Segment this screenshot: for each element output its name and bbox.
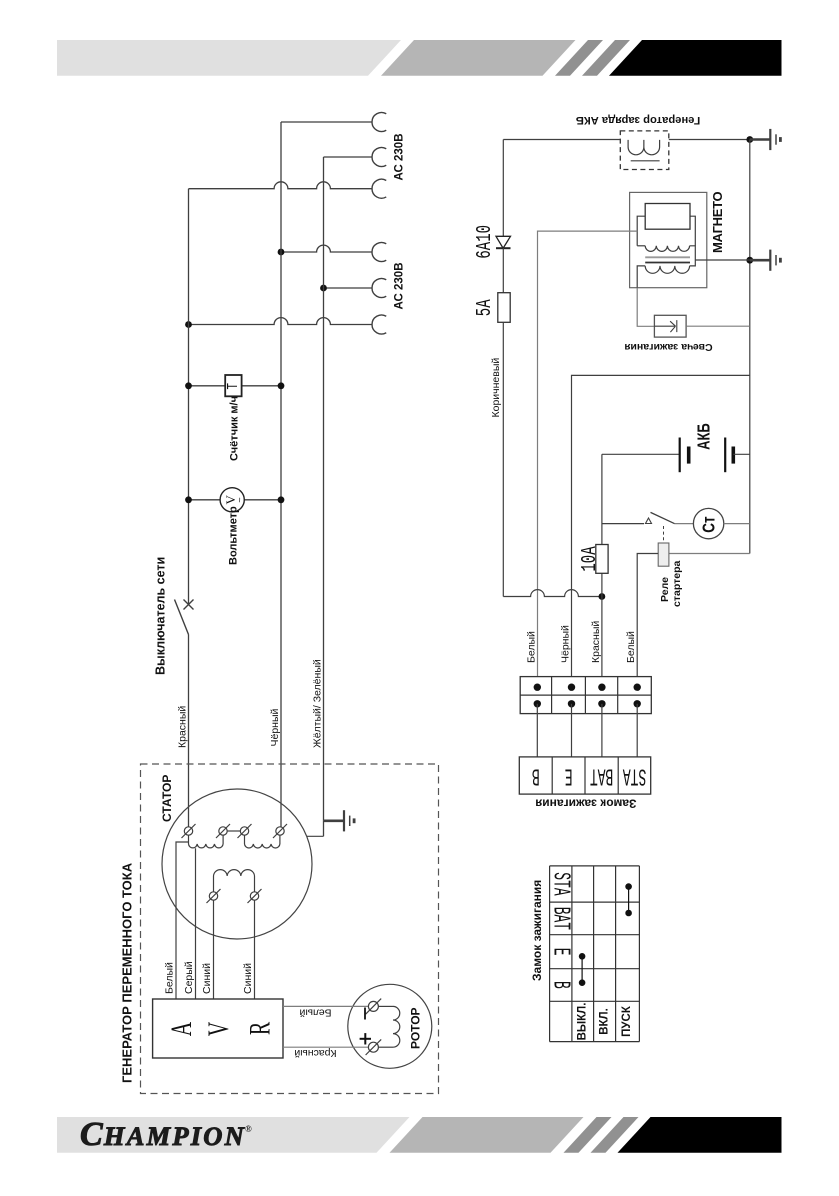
label AC 230V (upper) (394, 133, 406, 180)
state label VYKL (577, 1003, 589, 1041)
svg-text:Реле: Реле (659, 577, 671, 602)
state label VKL (599, 1008, 611, 1035)
svg-text:Т: Т (225, 383, 242, 390)
svg-text:ГЕНЕРАТОР ПЕРЕМЕННОГО ТОКА: ГЕНЕРАТОР ПЕРЕМЕННОГО ТОКА (120, 862, 135, 1083)
svg-text:Коричневый: Коричневый (490, 358, 502, 418)
wire magneto primary to white vertical (538, 231, 638, 687)
svg-text:АС 230В: АС 230В (394, 133, 406, 180)
fuse 5A (498, 293, 510, 323)
AC socket 4 (372, 243, 386, 262)
stator main winding terminal 1 (182, 824, 196, 838)
table header STA (547, 872, 574, 896)
wire: red wire to stator (188, 635, 190, 827)
svg-text:Синий: Синий (201, 963, 213, 994)
svg-text:Е: Е (547, 948, 574, 956)
svg-text:ВАТ: ВАТ (547, 907, 574, 930)
label brown wire (490, 358, 502, 418)
label blue wire 1 (201, 963, 213, 994)
label ignition lock (upside down) (535, 797, 636, 811)
svg-text:Выключатель сети: Выключатель сети (154, 557, 168, 675)
starter switch (602, 512, 675, 523)
svg-text:10А: 10А (579, 546, 603, 571)
wire magneto to ground bus (695, 259, 750, 261)
label magneto (710, 192, 725, 253)
wire labels above terminal block (525, 631, 537, 663)
svg-text:Чёрный: Чёрный (560, 625, 572, 663)
stator circle (162, 789, 312, 939)
label rotor (409, 1007, 423, 1049)
ground 1 (top right) (750, 129, 781, 150)
wire spark plug to bus (686, 325, 750, 327)
wire gray tap (195, 848, 197, 999)
svg-text:R: R (242, 1022, 276, 1035)
dashed link to relay (663, 526, 665, 543)
label ignition lock (table) (530, 880, 544, 981)
label rotor red wire (upside down) (294, 1047, 336, 1059)
ground 2 (magneto) (750, 250, 781, 271)
ignition lock state table (550, 866, 640, 1042)
AC socket 2 (372, 148, 386, 167)
voltmeter line (185, 496, 284, 503)
svg-text:5А: 5А (473, 299, 497, 316)
svg-text:STA: STA (547, 872, 574, 896)
wire charge generator left (503, 139, 620, 141)
svg-text:Вольтметр: Вольтметр (228, 506, 240, 565)
label battery charge generator (upside down) (576, 114, 700, 126)
mains switch (175, 600, 194, 635)
svg-text:Серый: Серый (183, 961, 195, 994)
table contact dots PUSK (625, 883, 632, 916)
svg-text:Белый: Белый (299, 1006, 331, 1018)
label 6A10 (473, 225, 497, 259)
stator main winding terminal 4 (273, 824, 287, 838)
svg-text:Счётчик м/ч: Счётчик м/ч (228, 396, 240, 461)
label gray wire (183, 961, 195, 994)
label blue wire 2 (242, 963, 254, 994)
svg-text:Свеча зажигания: Свеча зажигания (624, 341, 712, 353)
svg-text:стартера: стартера (671, 561, 683, 607)
red wire vertical with fuse 10A (596, 454, 608, 687)
black wire vertical and to bus (572, 375, 750, 687)
wire: socket 5 line (320, 285, 372, 292)
rotor coil (378, 1006, 399, 1047)
svg-text:Синий: Синий (242, 963, 254, 994)
ground at stator (324, 810, 355, 831)
svg-text:Чёрный: Чёрный (269, 708, 281, 746)
wire blue 2 (254, 900, 256, 999)
svg-text:6А10: 6А10 (473, 225, 497, 259)
wire blue 1 (213, 900, 215, 999)
svg-text:~: ~ (235, 497, 245, 502)
Champion logo (80, 1116, 252, 1153)
wire: left vertical (red wire) upper part (188, 189, 190, 604)
table header E (547, 948, 574, 956)
svg-text:Красный: Красный (176, 706, 188, 748)
svg-text:Ст: Ст (700, 516, 719, 533)
svg-text:ВЫКЛ.: ВЫКЛ. (577, 1003, 589, 1041)
diode 6A10 (496, 140, 511, 293)
right ground bus (746, 140, 753, 554)
table header B (547, 981, 574, 989)
svg-text:Белый: Белый (625, 631, 637, 663)
rotor wire white (283, 1005, 368, 1007)
voltmeter circle (220, 488, 244, 512)
label red wire (176, 706, 188, 748)
AVR letter A (164, 1021, 198, 1036)
generator dashed box (141, 764, 439, 1094)
label starter relay (659, 577, 671, 602)
wire: middle vertical (black wire from stator) (280, 122, 282, 827)
magneto core armature (645, 204, 690, 230)
wire white tap from coil A (176, 842, 189, 999)
state label PUSK (621, 1005, 633, 1037)
svg-text:V: V (201, 1021, 235, 1036)
voltmeter V~ symbol (223, 494, 238, 504)
spark plug gap symbol (654, 320, 676, 332)
starter motor circle (675, 508, 750, 538)
hour counter symbol T (225, 383, 242, 390)
wire magneto secondary down to spark plug (637, 288, 654, 327)
stator sub winding terminal 6 (248, 889, 262, 903)
wire: socket 6 line with hops (185, 318, 372, 328)
link terminal2-terminal3 (227, 830, 240, 832)
AVR letter R (242, 1022, 276, 1035)
hour counter box (225, 375, 241, 396)
contact label STA (623, 762, 647, 789)
AC socket 3 (372, 179, 386, 198)
svg-text:АС 230В: АС 230В (394, 262, 406, 309)
hour counter line (185, 382, 284, 389)
rotor terminal bottom (366, 1039, 382, 1055)
rotor circle (348, 984, 432, 1068)
footer stripe bar (57, 1117, 782, 1153)
label black wire (269, 708, 281, 746)
AC socket 6 (372, 315, 386, 334)
svg-text:Генератор заряда АКБ: Генератор заряда АКБ (576, 114, 700, 126)
charge generator coil (628, 140, 660, 161)
stator sub winding terminal 5 (207, 889, 221, 903)
svg-text:ПУСК: ПУСК (621, 1005, 633, 1037)
rotor minus mark (364, 1008, 366, 1020)
terminal block (520, 677, 651, 714)
svg-text:CHAMPION: CHAMPION (80, 1116, 246, 1153)
stator main winding coil B (245, 835, 280, 848)
magneto primary coil (637, 246, 695, 260)
rotor plus mark (360, 1033, 371, 1044)
label AC 230V (lower) (394, 262, 406, 309)
svg-text:STA: STA (623, 762, 647, 789)
table header BAT (547, 907, 574, 930)
label AC generator (120, 862, 135, 1083)
svg-text:В: В (547, 981, 574, 989)
contact label BAT (590, 762, 613, 789)
AC socket 1 (372, 112, 386, 131)
svg-text:Замок зажигания: Замок зажигания (535, 797, 636, 811)
AVR box (153, 999, 283, 1058)
label 5A (473, 299, 497, 316)
magneto primary outline (637, 216, 695, 246)
svg-text:В: В (532, 762, 540, 789)
wire: socket 4 line with hop (278, 245, 372, 255)
battery charge generator dashed box (620, 131, 669, 170)
svg-text:Жёлтый/ Зелёный: Жёлтый/ Зелёный (311, 659, 323, 748)
label spark plug (upside down) (624, 341, 712, 353)
contact label E (565, 762, 573, 789)
svg-text:A: A (164, 1021, 198, 1036)
wire: right vertical (yellow-green wire) (323, 157, 325, 821)
contact label B (532, 762, 540, 789)
stator main winding terminal 2 (216, 824, 230, 838)
wire: socket 1 feed (top corner of middle vertical) (281, 121, 372, 123)
rotor wire red (283, 1046, 368, 1048)
wire: socket 3 line with hops (189, 182, 373, 189)
svg-text:ВАТ: ВАТ (590, 762, 613, 789)
AVR letter V (201, 1021, 235, 1036)
svg-text:СТАТОР: СТАТОР (160, 775, 174, 822)
svg-text:Замок зажигания: Замок зажигания (530, 880, 544, 981)
brown wire down and across (503, 322, 605, 600)
svg-text:Белый: Белый (164, 962, 176, 994)
label St (starter) (700, 516, 719, 533)
header stripe bar (57, 40, 782, 76)
svg-text:ВКЛ.: ВКЛ. (599, 1008, 611, 1035)
wires terminal block to ignition lock contacts (537, 704, 637, 757)
svg-text:Красный: Красный (294, 1047, 336, 1059)
label AKB (695, 423, 714, 450)
stator frame to ground link (307, 821, 324, 837)
AC socket 5 (372, 279, 386, 298)
magneto box (630, 192, 707, 287)
magneto secondary coil (637, 260, 695, 288)
magneto core lines (645, 257, 690, 262)
svg-text:Белый: Белый (525, 631, 537, 663)
wire: socket 2 feed (324, 156, 373, 158)
label stator (160, 775, 174, 822)
table contact dots VYKL (579, 953, 586, 986)
stator sub winding coil (214, 870, 255, 892)
svg-text:МАГНЕТО: МАГНЕТО (710, 192, 725, 253)
label white wire (164, 962, 176, 994)
stator main winding coil A (189, 835, 224, 848)
svg-text:®: ® (245, 1124, 252, 1134)
svg-text:Красный: Красный (590, 621, 602, 663)
spark plug box (654, 315, 686, 337)
label rotor white wire (upside down) (299, 1006, 331, 1018)
wire charge generator right to ground (669, 136, 753, 143)
label yellow-green wire (311, 659, 323, 748)
stator main winding terminal 3 (238, 824, 252, 838)
rotor terminal top (366, 999, 382, 1015)
battery AKB (602, 438, 750, 473)
svg-text:Е: Е (565, 762, 573, 789)
label mains switch (154, 557, 168, 675)
ignition lock contact box (519, 757, 650, 794)
label 10A (579, 546, 603, 571)
label hour counter (228, 396, 240, 461)
svg-text:РОТОР: РОТОР (409, 1007, 423, 1049)
starter relay box (637, 543, 750, 687)
label voltmeter (228, 506, 240, 565)
svg-text:АКБ: АКБ (695, 423, 714, 450)
